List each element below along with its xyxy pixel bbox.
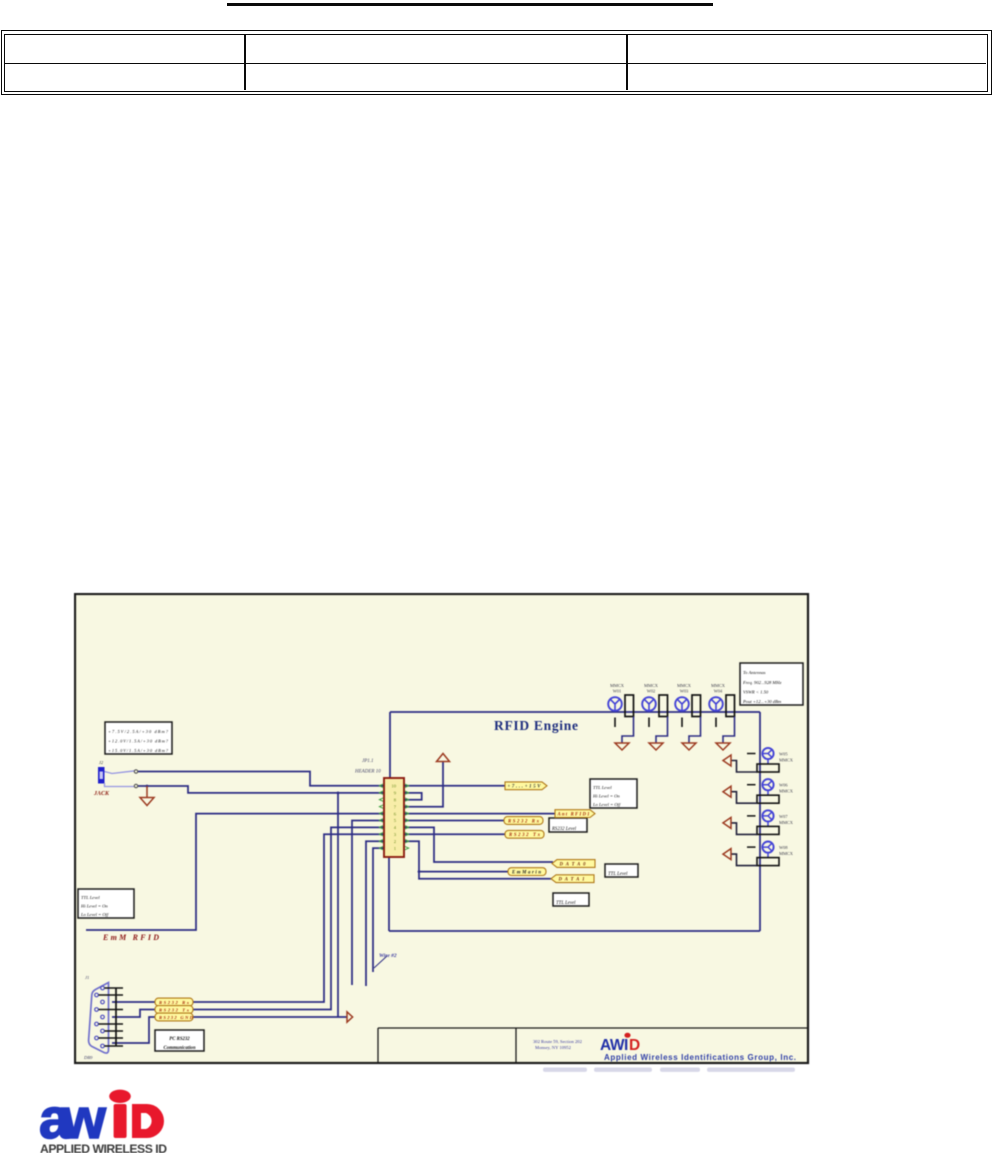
wire loop left to header bottom bbox=[388, 857, 390, 931]
wire jumper pins 9-8 bbox=[404, 793, 422, 800]
connector W5 MMCX (right) bbox=[731, 748, 794, 772]
svg-text:W05: W05 bbox=[779, 752, 788, 757]
connector JP1.1 HEADER 10 bbox=[384, 778, 404, 857]
note box TTL B bbox=[553, 893, 589, 906]
svg-text:HEADER 10: HEADER 10 bbox=[354, 770, 381, 775]
net label +7...+15V bbox=[505, 782, 547, 790]
wire pin to DATA1 tag bbox=[404, 841, 552, 879]
svg-text:D: D bbox=[629, 1037, 640, 1054]
pin 5 of J1 bbox=[101, 1015, 105, 1019]
svg-text:Lo Level = Off: Lo Level = Off bbox=[80, 912, 109, 917]
logo dot of i bbox=[109, 1090, 131, 1103]
connector W7 MMCX (right) bbox=[731, 810, 794, 834]
net label DATA0 bbox=[552, 860, 595, 868]
wire loop bottom bbox=[389, 930, 760, 932]
connector W3 MMCX (top) bbox=[675, 683, 700, 743]
wire bundle 3 bbox=[193, 834, 384, 1002]
arrow port RS232 GND bbox=[347, 1012, 353, 1022]
svg-text:MMCX: MMCX bbox=[711, 683, 726, 688]
svg-text:Communication: Communication bbox=[164, 1046, 196, 1051]
node junction EmMarin bbox=[418, 870, 421, 873]
node junction pin9 riser bbox=[337, 792, 340, 795]
pin 6 of J1 bbox=[95, 1022, 99, 1026]
svg-text:JACK: JACK bbox=[93, 791, 110, 797]
svg-text:MMCX: MMCX bbox=[779, 851, 794, 856]
svg-text:MMCX: MMCX bbox=[779, 820, 794, 825]
wire right trunk bbox=[759, 712, 761, 931]
connector J1 DB9 bbox=[89, 983, 116, 1054]
svg-text:Ant RFID1: Ant RFID1 bbox=[557, 812, 590, 817]
wire pin10 to +V tag bbox=[404, 785, 505, 787]
connector W8 MMCX (right) bbox=[731, 842, 794, 866]
connector W2 MMCX (top) bbox=[642, 683, 667, 743]
power arrow symbol bbox=[437, 754, 450, 762]
note box power options bbox=[105, 722, 172, 754]
svg-text:Applied Wireless Identificatio: Applied Wireless Identifications Group, … bbox=[604, 1053, 796, 1062]
ground of W1 bbox=[615, 743, 629, 750]
svg-text:VSWR < 1.50: VSWR < 1.50 bbox=[743, 689, 769, 694]
wire DB9 pin5 to Tx tag bbox=[112, 1010, 155, 1018]
ground at jack bbox=[146, 786, 148, 797]
revision table row divider bbox=[5, 63, 986, 64]
top heading underline bbox=[227, 3, 713, 6]
svg-text:J2: J2 bbox=[99, 760, 104, 765]
svg-text:Pout +12...+30 dBm: Pout +12...+30 dBm bbox=[742, 699, 782, 704]
wire bundle 5 bbox=[373, 848, 384, 972]
wire jack tip to pin 10 bbox=[138, 772, 384, 786]
svg-text:Hi Level = On: Hi Level = On bbox=[80, 904, 108, 909]
revision table column divider 2 bbox=[626, 35, 628, 90]
wire long left net bbox=[86, 814, 384, 930]
wire bundle 6 (RS232 GND riser) bbox=[337, 793, 339, 1017]
svg-text:W07: W07 bbox=[779, 814, 788, 819]
note box RS232 level bbox=[549, 818, 587, 832]
note box TTL left bbox=[78, 889, 134, 918]
pin 4 of J1 bbox=[95, 1008, 99, 1012]
note box TTL right bbox=[590, 779, 637, 808]
node junction jack ground bbox=[146, 785, 149, 788]
svg-text:TTL Level: TTL Level bbox=[608, 872, 628, 877]
wire bundle 2 bbox=[193, 827, 384, 1009]
net label DATA1 bbox=[551, 875, 594, 883]
arrow port W7 bbox=[723, 817, 731, 828]
note box to antennas bbox=[740, 663, 803, 705]
arrow port W8 bbox=[723, 849, 731, 860]
svg-text:PC RS232: PC RS232 bbox=[169, 1037, 190, 1042]
svg-text:MMCX: MMCX bbox=[610, 683, 625, 688]
svg-text:W02: W02 bbox=[647, 689, 656, 694]
svg-text:10: 10 bbox=[391, 784, 396, 789]
svg-text:TTL Level: TTL Level bbox=[81, 895, 100, 900]
connector W4 MMCX (top) bbox=[709, 683, 734, 743]
svg-text:W08: W08 bbox=[779, 845, 788, 850]
pin 8 of J1 bbox=[95, 1036, 99, 1040]
AWID corporate logo bbox=[30, 1085, 190, 1153]
svg-text:MMCX: MMCX bbox=[677, 683, 692, 688]
svg-text:TTL Level: TTL Level bbox=[593, 785, 612, 790]
note box PC RS232 bbox=[155, 1030, 204, 1051]
wire jack sleeve to pin 9 bbox=[138, 786, 384, 793]
schematic frame bbox=[75, 594, 808, 1063]
svg-text:MMCX: MMCX bbox=[779, 789, 794, 794]
ground of W3 bbox=[682, 743, 696, 750]
svg-text:To Antennas: To Antennas bbox=[743, 670, 766, 675]
svg-text:MMCX: MMCX bbox=[779, 758, 794, 763]
svg-text:AWI: AWI bbox=[600, 1037, 628, 1054]
svg-text:W04: W04 bbox=[714, 689, 723, 694]
revision table outer border bbox=[1, 30, 992, 95]
wire pin to RS232 Rx tag bbox=[404, 820, 504, 822]
svg-text:J1: J1 bbox=[85, 975, 89, 980]
arrow port W6 bbox=[723, 786, 731, 797]
wire bundle 1 bbox=[352, 821, 384, 986]
wire DB9 pin9 to GND tag bbox=[112, 1017, 155, 1043]
connector W6 MMCX (right) bbox=[731, 779, 794, 803]
wire RS232 GND row bbox=[193, 1016, 347, 1018]
RFID engine schematic (scanned drawing) bbox=[74, 593, 811, 1077]
svg-text:APPLIED WIRELESS ID: APPLIED WIRELESS ID bbox=[40, 1142, 167, 1153]
pin 7 of J1 bbox=[101, 1029, 105, 1033]
net label RS232 Tx bbox=[505, 830, 544, 838]
pin 3 of J1 bbox=[101, 1000, 105, 1004]
revision table column divider 1 bbox=[244, 35, 246, 90]
net label RS232 Rx bbox=[504, 817, 543, 825]
pin 1 of J1 bbox=[101, 986, 105, 990]
wire power arrow drop bbox=[404, 761, 443, 807]
net label Ant RFID1 bbox=[555, 810, 595, 818]
svg-text:Lo Level = Off: Lo Level = Off bbox=[592, 802, 621, 807]
svg-text:Freq. 902...928 MHz: Freq. 902...928 MHz bbox=[742, 680, 782, 685]
svg-text:TTL Level: TTL Level bbox=[556, 901, 576, 906]
net label EmMarin bbox=[508, 868, 546, 876]
arrow port W5 bbox=[723, 755, 731, 766]
pin 9 of J1 bbox=[101, 1044, 105, 1048]
net label DB9 RS232 Rx bbox=[155, 998, 193, 1006]
note box TTL A bbox=[605, 864, 638, 877]
wire antenna bus top bbox=[390, 711, 760, 713]
svg-text:W03: W03 bbox=[680, 689, 689, 694]
svg-text:Hi Level = On: Hi Level = On bbox=[592, 794, 620, 799]
svg-text:+15.0V/1.5A/+30 dBm?: +15.0V/1.5A/+30 dBm? bbox=[108, 748, 169, 753]
svg-text:+12.0V/1.5A/+30 dBm?: +12.0V/1.5A/+30 dBm? bbox=[108, 739, 169, 744]
svg-text:RS232 Level: RS232 Level bbox=[551, 827, 577, 832]
wire pin to Ant RFID tag bbox=[404, 813, 555, 815]
wire DB9 pin3 to tag bbox=[112, 1001, 155, 1003]
logo stem of i bbox=[114, 1104, 127, 1138]
connector W1 MMCX (top) bbox=[608, 683, 633, 743]
revision table inner border bbox=[4, 34, 988, 92]
svg-text:RFID Engine: RFID Engine bbox=[494, 718, 578, 733]
net label DB9 RS232 GND bbox=[155, 1013, 193, 1021]
svg-text:MMCX: MMCX bbox=[644, 683, 659, 688]
wire bus up to header bbox=[389, 712, 391, 778]
svg-text:W01: W01 bbox=[613, 689, 622, 694]
net label DB9 RS232 Tx bbox=[155, 1006, 193, 1014]
connector J2 jack bbox=[98, 767, 138, 788]
svg-text:JP1.1: JP1.1 bbox=[362, 759, 374, 764]
svg-text:Wire #2: Wire #2 bbox=[379, 953, 397, 959]
title block AWID logo bbox=[600, 1033, 640, 1054]
title block bbox=[378, 1028, 807, 1062]
ground of W2 bbox=[649, 743, 663, 750]
logo letter D bbox=[132, 1104, 164, 1138]
wire branch to EmMarin tag bbox=[419, 871, 508, 873]
svg-text:W06: W06 bbox=[779, 783, 788, 788]
wire pin to RS232 Tx tag bbox=[404, 833, 505, 835]
wire bundle 4 bbox=[366, 841, 384, 986]
ghost row below title block bbox=[543, 1068, 795, 1072]
ground of W4 bbox=[716, 743, 730, 750]
wire pin to DATA0 tag bbox=[404, 827, 553, 862]
svg-text:DB9: DB9 bbox=[83, 1055, 93, 1060]
pin 2 of J1 bbox=[95, 993, 99, 997]
